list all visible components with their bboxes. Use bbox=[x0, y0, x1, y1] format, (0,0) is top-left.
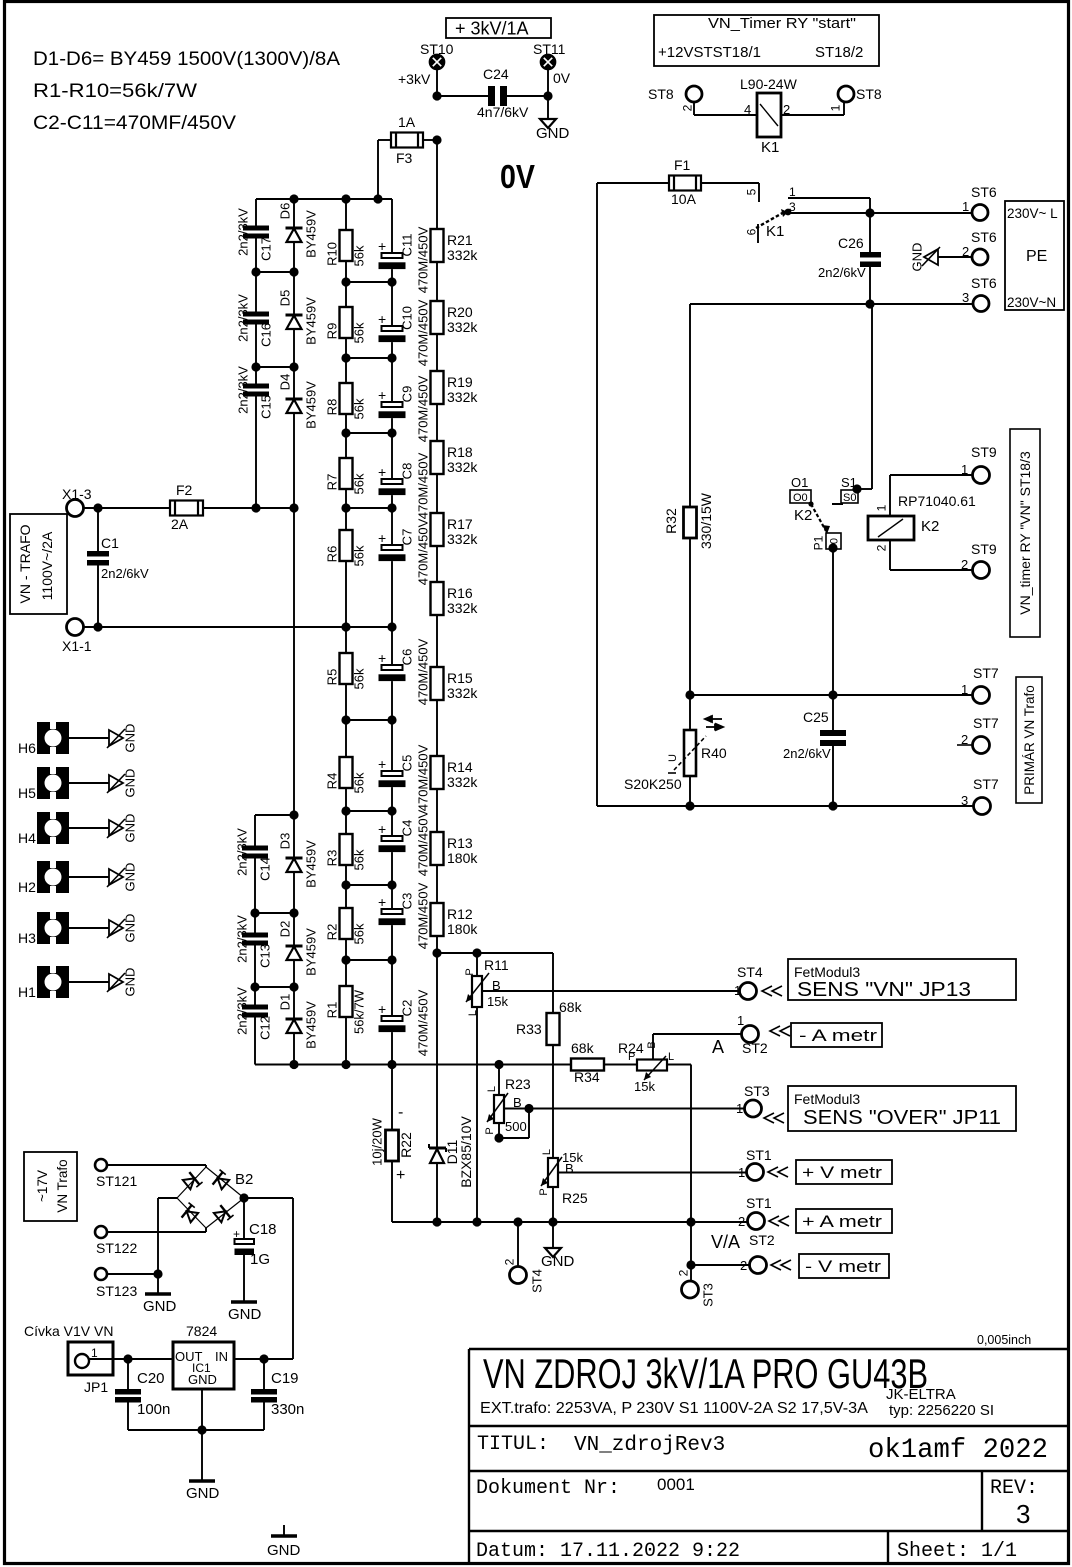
svg-text:470M/450V: 470M/450V bbox=[416, 452, 431, 519]
svg-text:56k: 56k bbox=[352, 923, 367, 944]
bridge diode top-left bbox=[182, 1170, 203, 1191]
svg-text:R25: R25 bbox=[562, 1190, 588, 1206]
node primary row 2 left bbox=[685, 801, 694, 810]
resistor R2 56k bbox=[345, 885, 347, 908]
wire D11 column bbox=[436, 953, 438, 1148]
resistor R12 180k bbox=[436, 865, 438, 903]
svg-text:2: 2 bbox=[740, 1258, 747, 1273]
svg-text:470M/450V: 470M/450V bbox=[416, 809, 431, 876]
resistor R10 56k bbox=[345, 199, 347, 230]
svg-text:K1: K1 bbox=[761, 139, 779, 156]
svg-text:L: L bbox=[668, 1051, 674, 1063]
svg-text:R3: R3 bbox=[325, 850, 340, 867]
ground GND at H4 bbox=[69, 827, 109, 829]
capacitor C14 2n2/3kV bbox=[254, 815, 256, 846]
capacitor C17 2n2/3kV bbox=[255, 199, 257, 226]
svg-text:K2: K2 bbox=[921, 518, 939, 535]
svg-text:+: + bbox=[378, 238, 386, 254]
wire R24 right down bbox=[667, 1064, 691, 1066]
capacitor C13 2n2/3kV bbox=[254, 913, 256, 933]
bridge rectifier B2 bbox=[206, 1167, 244, 1198]
svg-text:15k: 15k bbox=[487, 994, 508, 1009]
svg-text:ST7: ST7 bbox=[973, 776, 999, 792]
resistor R32 330/15W bbox=[684, 507, 697, 538]
resistor R9 56k bbox=[345, 282, 347, 307]
terminal ST123 bbox=[95, 1268, 107, 1280]
svg-text:3: 3 bbox=[961, 793, 968, 808]
svg-text:ST6: ST6 bbox=[971, 184, 997, 200]
svg-text:R4: R4 bbox=[325, 773, 340, 790]
wire R11 wiper to ST4-1 bbox=[482, 990, 740, 992]
svg-text:332k: 332k bbox=[447, 600, 478, 616]
svg-text:-: - bbox=[398, 1104, 403, 1121]
svg-text:PE: PE bbox=[1026, 248, 1047, 265]
svg-text:REV:: REV: bbox=[990, 1477, 1038, 1500]
wire X1-1 row to ladder bbox=[84, 626, 392, 628]
svg-text:+ V metr: + V metr bbox=[802, 1163, 882, 1182]
trim pot R25 15k bbox=[548, 1158, 558, 1187]
capacitor C9 470M/450V bbox=[391, 358, 393, 402]
svg-text:R23: R23 bbox=[505, 1076, 531, 1092]
svg-text:O0: O0 bbox=[793, 492, 808, 504]
svg-text:R11: R11 bbox=[484, 957, 509, 973]
svg-text:56k: 56k bbox=[352, 668, 367, 689]
wire relay pin2 to ST9-2 bbox=[889, 540, 891, 570]
resistor R22 10/20W bbox=[391, 1065, 393, 1131]
wire ladder row R7 top bbox=[346, 432, 392, 434]
label box PRIMAR VN Trafo bbox=[1016, 677, 1042, 803]
svg-text:H1: H1 bbox=[18, 984, 36, 1000]
wire K1 coil to ST8 right bbox=[781, 114, 844, 116]
svg-text:ok1amf 2022: ok1amf 2022 bbox=[868, 1435, 1048, 1466]
label box SENS OVER JP11 bbox=[788, 1086, 1016, 1131]
node C25 top bbox=[828, 690, 837, 699]
label box -V metr bbox=[799, 1254, 889, 1278]
svg-text:56k: 56k bbox=[352, 398, 367, 419]
mounting hole H2 bbox=[37, 861, 69, 893]
svg-text:2: 2 bbox=[680, 104, 694, 111]
ground GND floating bbox=[283, 1525, 285, 1535]
svg-text:2: 2 bbox=[676, 1269, 690, 1276]
resistor R18 332k bbox=[436, 404, 438, 441]
node K1 output bbox=[865, 208, 874, 217]
svg-text:C20: C20 bbox=[137, 1370, 165, 1387]
svg-text:GND: GND bbox=[123, 724, 138, 753]
svg-text:1: 1 bbox=[737, 1013, 744, 1028]
svg-text:R22: R22 bbox=[398, 1132, 414, 1158]
wire F3 to +3kV rail bbox=[423, 139, 437, 141]
svg-text:ST4: ST4 bbox=[530, 1269, 545, 1293]
wire R12 to sense node bbox=[436, 936, 438, 953]
svg-text:2n2/6kV: 2n2/6kV bbox=[783, 746, 831, 761]
svg-text:56k: 56k bbox=[352, 473, 367, 494]
svg-text:RP71040.61: RP71040.61 bbox=[898, 493, 976, 509]
svg-text:D5: D5 bbox=[278, 290, 293, 307]
svg-text:ST122: ST122 bbox=[96, 1240, 137, 1256]
diode D1 BY459V bbox=[293, 987, 295, 1019]
svg-text:R17: R17 bbox=[447, 516, 473, 532]
svg-text:180k: 180k bbox=[447, 850, 478, 866]
wire row C14-D3 bottom bbox=[255, 912, 294, 914]
capacitor C6 470M/450V bbox=[391, 627, 393, 665]
node X1-1 junction bbox=[93, 622, 102, 631]
svg-text:C5: C5 bbox=[400, 755, 415, 772]
wire ST8-left to K1 coil bbox=[693, 102, 695, 115]
svg-text:6: 6 bbox=[744, 228, 758, 235]
wire ladder row R8 top bbox=[346, 357, 392, 359]
svg-text:2n2/6kV: 2n2/6kV bbox=[101, 566, 149, 581]
label box VN_Timer RY start bbox=[654, 15, 879, 66]
svg-text:56k/7W: 56k/7W bbox=[352, 989, 367, 1034]
svg-text:332k: 332k bbox=[447, 459, 478, 475]
resistor R13 180k bbox=[436, 789, 438, 832]
svg-text:S1: S1 bbox=[841, 475, 857, 490]
svg-text:C7: C7 bbox=[400, 529, 415, 546]
terminal ST122 bbox=[95, 1226, 107, 1238]
svg-text:ST18/2: ST18/2 bbox=[815, 44, 863, 61]
switch K2 blade bbox=[811, 504, 826, 531]
svg-text:VN ZDROJ 3kV/1A PRO GU43B: VN ZDROJ 3kV/1A PRO GU43B bbox=[483, 1350, 928, 1397]
svg-text:L: L bbox=[486, 1086, 498, 1092]
svg-text:R13: R13 bbox=[447, 835, 473, 851]
svg-text:1: 1 bbox=[874, 504, 888, 511]
capacitor C7 470M/450V bbox=[391, 508, 393, 545]
wire primary row 1 bbox=[690, 694, 973, 696]
wire ST10 down bbox=[436, 69, 438, 96]
svg-text:+ A metr: + A metr bbox=[802, 1212, 882, 1231]
node bridge plus bbox=[239, 1193, 248, 1202]
svg-text:P1: P1 bbox=[811, 535, 825, 550]
svg-text:+: + bbox=[378, 756, 386, 772]
svg-text:470M/450V: 470M/450V bbox=[416, 299, 431, 366]
svg-text:ST2: ST2 bbox=[742, 1040, 768, 1056]
svg-text:SENS "OVER" JP11: SENS "OVER" JP11 bbox=[803, 1107, 1001, 1129]
wire F1 to contact 5 bbox=[701, 182, 759, 184]
svg-text:1: 1 bbox=[962, 199, 969, 214]
svg-text:R21: R21 bbox=[447, 232, 473, 248]
resistor R15 332k bbox=[436, 615, 438, 667]
svg-text:GND: GND bbox=[910, 243, 925, 272]
ground GND at H3 bbox=[69, 927, 109, 929]
wire lower group top rail bbox=[255, 814, 294, 816]
capacitor C1 2n2/6kV bbox=[97, 508, 99, 551]
capacitor C19 330n bbox=[263, 1359, 265, 1389]
wire ladder row R4 top bbox=[346, 719, 392, 721]
wire K1 to ST6-1 bbox=[870, 212, 973, 214]
wire F3 left to ladder top bbox=[378, 139, 391, 141]
terminal ST8 right bbox=[838, 86, 854, 102]
ground GND at H5 bbox=[69, 782, 109, 784]
svg-text:C17: C17 bbox=[259, 237, 274, 261]
svg-text:332k: 332k bbox=[447, 319, 478, 335]
capacitor C4 470M/450V bbox=[391, 811, 393, 836]
svg-text:P: P bbox=[484, 1127, 496, 1134]
svg-text:C2: C2 bbox=[400, 1000, 415, 1017]
svg-text:Sheet: 1/1: Sheet: 1/1 bbox=[897, 1540, 1017, 1563]
terminal ST4-2 bbox=[517, 1222, 519, 1266]
resistor R8 56k bbox=[345, 358, 347, 383]
title block frame bbox=[469, 1348, 1068, 1350]
svg-text:R1: R1 bbox=[325, 1002, 340, 1019]
diode D2 BY459V bbox=[293, 913, 295, 946]
svg-text:D4: D4 bbox=[278, 374, 293, 391]
svg-text:P: P bbox=[464, 968, 476, 975]
svg-text:R15: R15 bbox=[447, 670, 473, 686]
svg-text:JK-ELTRA: JK-ELTRA bbox=[886, 1386, 956, 1403]
mounting hole H3 bbox=[37, 912, 69, 944]
ground GND at ST6-2 bbox=[924, 249, 938, 265]
svg-text:10A: 10A bbox=[671, 191, 697, 207]
wire HV top rail bbox=[256, 198, 392, 200]
svg-text:C8: C8 bbox=[400, 463, 415, 480]
svg-text:+: + bbox=[378, 464, 386, 480]
svg-text:S20K250: S20K250 bbox=[624, 776, 682, 792]
resistor R1 56k/7W bbox=[345, 960, 347, 986]
diode D6 BY459V bbox=[293, 199, 295, 228]
svg-text:F3: F3 bbox=[396, 150, 413, 166]
svg-text:C10: C10 bbox=[400, 306, 415, 330]
diode D3 BY459V bbox=[293, 815, 295, 858]
svg-text:IN: IN bbox=[215, 1349, 228, 1364]
svg-text:TITUL:: TITUL: bbox=[477, 1433, 549, 1456]
node primary row 1 left bbox=[685, 690, 694, 699]
svg-text:332k: 332k bbox=[447, 685, 478, 701]
capacitor C25 2n2/6kV bbox=[832, 695, 834, 730]
svg-text:1: 1 bbox=[961, 462, 968, 477]
node -V branch bbox=[686, 1260, 695, 1269]
wire mains riser bbox=[596, 183, 598, 806]
svg-text:470M/450V: 470M/450V bbox=[416, 882, 431, 949]
svg-text:R16: R16 bbox=[447, 585, 473, 601]
terminal X1-1 bbox=[67, 619, 84, 636]
capacitor C15 2n2/3kV bbox=[255, 367, 257, 384]
svg-text:D2: D2 bbox=[278, 921, 293, 938]
wire X1-3 to F2 bbox=[84, 507, 170, 509]
svg-text:470M/450V: 470M/450V bbox=[416, 638, 431, 705]
svg-text:+: + bbox=[378, 1001, 386, 1017]
svg-text:R40: R40 bbox=[701, 745, 727, 761]
svg-text:ST7: ST7 bbox=[973, 665, 999, 681]
resistor R21 332k bbox=[431, 229, 444, 262]
svg-text:C24: C24 bbox=[483, 66, 509, 82]
svg-text:A: A bbox=[712, 1037, 724, 1057]
wire bridge minus to ground bbox=[158, 1197, 177, 1199]
svg-text:C19: C19 bbox=[271, 1370, 299, 1387]
capacitor C3 470M/450V bbox=[391, 885, 393, 909]
node 0V junction bbox=[543, 91, 552, 100]
svg-text:2n2/3kV: 2n2/3kV bbox=[236, 366, 251, 414]
svg-text:B: B bbox=[646, 1041, 658, 1048]
bridge diode bottom-right bbox=[213, 1203, 234, 1224]
svg-text:330/15W: 330/15W bbox=[698, 492, 714, 549]
trim pot R11 15k bbox=[476, 953, 478, 976]
varistor R40 S20K250 bbox=[689, 695, 691, 730]
svg-text:BY459V: BY459V bbox=[304, 210, 319, 258]
svg-text:B: B bbox=[565, 1161, 574, 1176]
wire R25 wiper to ST1-1 bbox=[558, 1172, 747, 1174]
svg-text:GND: GND bbox=[267, 1542, 301, 1559]
svg-text:C3: C3 bbox=[400, 893, 415, 910]
svg-text:0V: 0V bbox=[553, 70, 571, 86]
resistor R4 56k bbox=[345, 720, 347, 757]
svg-text:C26: C26 bbox=[838, 235, 864, 251]
svg-text:56k: 56k bbox=[352, 245, 367, 266]
terminal ST121 bbox=[95, 1159, 107, 1171]
wire diode column to lower group bbox=[293, 508, 295, 815]
svg-text:0,005inch: 0,005inch bbox=[977, 1333, 1031, 1347]
capacitor C18 1G bbox=[243, 1198, 245, 1239]
svg-text:R2: R2 bbox=[325, 924, 340, 941]
ground GND at H2 bbox=[69, 876, 109, 878]
ground GND at IC1 bbox=[201, 1430, 203, 1480]
svg-text:ST1: ST1 bbox=[746, 1147, 772, 1163]
svg-text:2: 2 bbox=[502, 1258, 516, 1265]
svg-text:~17V: ~17V bbox=[35, 1170, 50, 1202]
svg-text:U: U bbox=[667, 754, 679, 762]
svg-text:H6: H6 bbox=[18, 740, 36, 756]
svg-text:typ: 2256220 SI: typ: 2256220 SI bbox=[889, 1402, 994, 1419]
svg-text:1100V~/2A: 1100V~/2A bbox=[39, 531, 55, 600]
resistor R14 332k bbox=[436, 700, 438, 756]
wire ladder row R5 top bbox=[346, 626, 392, 628]
label box +V metr bbox=[796, 1160, 892, 1184]
node X1-3 junction bbox=[93, 503, 102, 512]
svg-text:ST1: ST1 bbox=[746, 1195, 772, 1211]
svg-text:230V~N: 230V~N bbox=[1007, 295, 1056, 310]
label box +A metr bbox=[796, 1209, 892, 1233]
wire ladder row R2 top bbox=[346, 884, 392, 886]
wire primary row 2 bbox=[597, 805, 974, 807]
svg-text:GND: GND bbox=[123, 814, 138, 843]
wire ladder row R6 top bbox=[346, 507, 392, 509]
svg-text:470M/450V: 470M/450V bbox=[416, 375, 431, 442]
svg-text:4n7/6kV: 4n7/6kV bbox=[477, 104, 529, 120]
svg-text:F1: F1 bbox=[674, 157, 691, 173]
resistor R7 56k bbox=[345, 433, 347, 458]
node sense row left bbox=[432, 948, 441, 957]
wire ST123 to ground bbox=[107, 1273, 158, 1275]
svg-text:BY459V: BY459V bbox=[304, 381, 319, 429]
svg-text:1: 1 bbox=[828, 104, 842, 111]
svg-text:GND: GND bbox=[123, 863, 138, 892]
resistor R5 56k bbox=[345, 627, 347, 653]
svg-text:56k: 56k bbox=[352, 849, 367, 870]
svg-text:GND: GND bbox=[123, 968, 138, 997]
svg-text:+: + bbox=[378, 387, 386, 403]
capacitor C11 470M/450V bbox=[391, 199, 393, 253]
svg-text:VN_timer RY "VN" ST18/3: VN_timer RY "VN" ST18/3 bbox=[1017, 451, 1033, 615]
svg-text:L: L bbox=[541, 1149, 553, 1155]
svg-text:ST123: ST123 bbox=[96, 1283, 137, 1299]
svg-text:332k: 332k bbox=[447, 247, 478, 263]
svg-text:1G: 1G bbox=[250, 1251, 270, 1268]
svg-text:4: 4 bbox=[744, 102, 751, 117]
svg-text:1: 1 bbox=[789, 185, 796, 199]
svg-text:C1: C1 bbox=[101, 535, 119, 551]
svg-text:R6: R6 bbox=[325, 546, 340, 563]
svg-text:10j/20W: 10j/20W bbox=[370, 1117, 385, 1165]
svg-text:330n: 330n bbox=[271, 1401, 304, 1418]
svg-text:R12: R12 bbox=[447, 906, 473, 922]
svg-text:C14: C14 bbox=[258, 857, 273, 881]
svg-text:Datum: 17.11.2022 9:22: Datum: 17.11.2022 9:22 bbox=[476, 1540, 740, 1563]
svg-text:1: 1 bbox=[736, 1101, 743, 1116]
svg-text:BZX85/10V: BZX85/10V bbox=[458, 1116, 474, 1188]
svg-text:Cívka V1V VN: Cívka V1V VN bbox=[24, 1323, 113, 1339]
svg-text:ST121: ST121 bbox=[96, 1173, 137, 1189]
svg-text:0001: 0001 bbox=[657, 1475, 695, 1494]
wire regulator ground bus bbox=[128, 1429, 264, 1431]
svg-text:5: 5 bbox=[744, 188, 758, 195]
svg-text:EXT.trafo: 2253VA, P 230V S1 1: EXT.trafo: 2253VA, P 230V S1 1100V-2A S2… bbox=[480, 1400, 869, 1417]
svg-text:Dokument Nr:: Dokument Nr: bbox=[476, 1477, 620, 1500]
resistor R3 56k bbox=[345, 811, 347, 834]
svg-text:2: 2 bbox=[962, 244, 969, 259]
capacitor C10 470M/450V bbox=[391, 282, 393, 326]
title REV cell bbox=[981, 1471, 983, 1531]
trim pot R23 500 bbox=[498, 1065, 500, 1096]
resistor R17 332k bbox=[436, 474, 438, 513]
svg-text:230V~ L: 230V~ L bbox=[1007, 206, 1058, 221]
wire F2 to diode ladder bbox=[203, 507, 294, 509]
wire analog ground bus bbox=[392, 1221, 748, 1223]
label box 17V VN Trafo bbox=[24, 1152, 77, 1221]
wire ST11 down bbox=[547, 69, 549, 96]
wire IC1 out bbox=[234, 1358, 293, 1360]
svg-text:180k: 180k bbox=[447, 921, 478, 937]
svg-text:FetModul3: FetModul3 bbox=[794, 1091, 860, 1107]
svg-text:- V metr: - V metr bbox=[805, 1257, 881, 1276]
svg-text:C15: C15 bbox=[259, 395, 274, 419]
wire JP1 to regulator bbox=[89, 1358, 173, 1360]
svg-text:K1: K1 bbox=[766, 223, 784, 240]
svg-text:GND: GND bbox=[536, 125, 570, 142]
svg-text:+: + bbox=[378, 311, 386, 327]
ground GND at H1 bbox=[69, 981, 109, 983]
ground GND at ST11 bbox=[547, 96, 549, 119]
svg-text:+: + bbox=[378, 821, 386, 837]
svg-text:470M/450V: 470M/450V bbox=[416, 744, 431, 811]
svg-text:C25: C25 bbox=[803, 709, 829, 725]
node C20 top bbox=[123, 1354, 132, 1363]
ground GND at C18 bbox=[231, 1300, 257, 1304]
svg-text:C13: C13 bbox=[258, 944, 273, 968]
svg-text:R20: R20 bbox=[447, 304, 473, 320]
svg-text:R8: R8 bbox=[325, 399, 340, 416]
svg-text:GND: GND bbox=[143, 1298, 177, 1315]
svg-text:56k: 56k bbox=[352, 322, 367, 343]
svg-text:1: 1 bbox=[91, 1346, 98, 1360]
svg-text:C9: C9 bbox=[400, 386, 415, 403]
label box mains 230V PE bbox=[1005, 201, 1064, 310]
svg-text:V/A: V/A bbox=[711, 1232, 740, 1252]
wire sense row bbox=[437, 952, 553, 954]
svg-text:K2: K2 bbox=[794, 507, 812, 524]
svg-text:2: 2 bbox=[738, 1214, 745, 1229]
capacitor C26 bbox=[869, 213, 871, 252]
switch K1 blade bbox=[756, 211, 786, 228]
svg-text:+3kV: +3kV bbox=[398, 71, 431, 87]
svg-text:7824: 7824 bbox=[186, 1323, 217, 1339]
svg-text:ST2: ST2 bbox=[749, 1232, 775, 1248]
svg-text:H4: H4 bbox=[18, 830, 36, 846]
wire relay pin1 to ST9-1 bbox=[889, 475, 891, 516]
svg-text:2n2/3kV: 2n2/3kV bbox=[235, 987, 250, 1035]
wire ladder row R9 top bbox=[346, 281, 392, 283]
svg-text:ST6: ST6 bbox=[971, 275, 997, 291]
svg-text:470M/450V: 470M/450V bbox=[416, 518, 431, 585]
svg-text:BY459V: BY459V bbox=[304, 840, 319, 888]
